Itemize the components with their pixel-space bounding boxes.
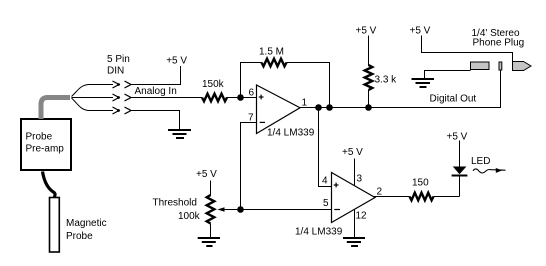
svg-text:100k: 100k [178, 211, 201, 222]
svg-text:5: 5 [323, 198, 329, 209]
svg-text:+5 V: +5 V [356, 26, 377, 37]
svg-text:Probe: Probe [66, 231, 93, 242]
svg-text:Magnetic: Magnetic [66, 218, 107, 229]
svg-text:Pre-amp: Pre-amp [26, 144, 65, 155]
svg-text:150: 150 [412, 178, 429, 189]
svg-text:1/4 LM339: 1/4 LM339 [267, 128, 315, 139]
svg-text:DIN: DIN [107, 66, 124, 77]
svg-text:2: 2 [377, 187, 383, 198]
svg-text:6: 6 [249, 88, 255, 99]
svg-text:Digital Out: Digital Out [430, 94, 477, 105]
svg-text:3: 3 [357, 174, 363, 185]
svg-text:Threshold: Threshold [153, 198, 197, 209]
svg-text:7: 7 [248, 113, 254, 124]
svg-text:+5 V: +5 V [342, 147, 363, 158]
svg-text:Phone Plug: Phone Plug [473, 38, 525, 49]
svg-text:+5 V: +5 V [447, 132, 468, 143]
svg-text:+5 V: +5 V [166, 56, 187, 67]
svg-text:Analog In: Analog In [135, 86, 177, 97]
svg-text:1: 1 [302, 97, 308, 108]
svg-text:150k: 150k [202, 79, 225, 90]
svg-text:+5 V: +5 V [410, 26, 431, 37]
svg-text:Probe: Probe [26, 132, 53, 143]
svg-text:3.3 k: 3.3 k [375, 75, 398, 86]
svg-text:LED: LED [471, 156, 490, 167]
svg-text:12: 12 [356, 210, 368, 221]
svg-text:1/4 LM339: 1/4 LM339 [295, 227, 343, 238]
svg-text:1.5 M: 1.5 M [259, 47, 284, 58]
svg-text:+5 V: +5 V [196, 169, 217, 180]
svg-text:4: 4 [322, 176, 328, 187]
svg-text:5 Pin: 5 Pin [107, 54, 130, 65]
